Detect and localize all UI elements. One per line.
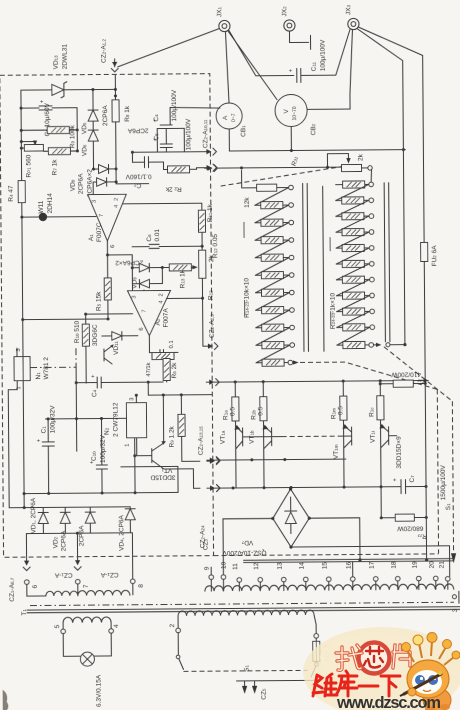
wire collector bus y488 xyxy=(215,487,401,488)
terminal JX1 xyxy=(216,6,230,31)
resistor R5 15k xyxy=(95,255,111,321)
resistor Rx 510 xyxy=(74,313,100,384)
capacitor C10 100u/32V xyxy=(89,417,107,495)
zener diode VD13 2DWL31 xyxy=(21,43,115,98)
svg-text:RP1 560: RP1 560 xyxy=(25,154,32,177)
svg-text:13: 13 xyxy=(277,562,284,570)
terminal 14 xyxy=(299,562,309,591)
svg-text:15: 15 xyxy=(322,562,329,570)
resistor R31 1k xyxy=(337,292,375,299)
diode VD9 xyxy=(131,255,162,289)
resistor R1b 0.5 xyxy=(250,382,267,488)
svg-text:N1: N1 xyxy=(35,372,42,380)
svg-text:C2: C2 xyxy=(134,182,142,189)
resistor R1m 0.5 xyxy=(330,381,347,487)
dashed boundary power board xyxy=(437,389,438,553)
wire ladder2 zigzag xyxy=(336,248,369,264)
wire V meter to bus xyxy=(290,127,292,151)
resistor R17 10k xyxy=(255,236,294,243)
svg-text:F007C: F007C xyxy=(96,222,103,242)
terminal 21 xyxy=(439,561,451,590)
connector arrow CZ2-A2,3 xyxy=(203,314,218,350)
mascot body xyxy=(400,633,460,710)
svg-text:17: 17 xyxy=(369,561,376,569)
svg-text:6.3V/0.15A: 6.3V/0.15A xyxy=(96,674,103,707)
wire JX3 to rail x425 xyxy=(358,26,424,243)
svg-text:3DD15D: 3DD15D xyxy=(150,473,175,480)
svg-text:8: 8 xyxy=(138,584,145,588)
resistor R6 2k xyxy=(146,352,178,383)
svg-text:2: 2 xyxy=(169,623,176,627)
connector arrows CZ2-A13,15 xyxy=(198,426,221,492)
terminal 11 xyxy=(232,563,242,591)
potentiometer RP1 560 xyxy=(20,140,44,178)
svg-text:R5 15k: R5 15k xyxy=(95,291,102,311)
transistor VT1 3DD15D driver xyxy=(133,437,175,494)
svg-text:0.01: 0.01 xyxy=(154,229,161,242)
wire driver collector to connector xyxy=(164,469,200,489)
svg-text:3: 3 xyxy=(16,348,22,351)
svg-text:3: 3 xyxy=(132,295,138,298)
wire y395 xyxy=(148,382,212,396)
svg-text:2CP6A: 2CP6A xyxy=(102,105,109,126)
svg-text:QSZ-10A/200V: QSZ-10A/200V xyxy=(222,549,267,556)
connector arrow CZ2-A11 xyxy=(202,119,216,171)
transistor VT2 3DG6C xyxy=(104,344,114,364)
svg-text:20: 20 xyxy=(429,561,436,569)
resistor R1c xyxy=(368,382,384,487)
svg-text:R12 0.05: R12 0.05 xyxy=(212,234,219,259)
mascot feet xyxy=(425,706,435,710)
transistor VT1b xyxy=(249,425,282,460)
wire terminal8 riser xyxy=(131,533,133,579)
svg-text:14: 14 xyxy=(299,562,306,570)
resistor R21 10k xyxy=(256,306,295,313)
wire meter bus y150 xyxy=(229,128,405,151)
svg-text:W11: W11 xyxy=(38,200,45,213)
wire sense line y168 xyxy=(218,166,342,169)
svg-text:0.5: 0.5 xyxy=(337,406,344,415)
char xia xyxy=(381,676,400,696)
connector CZ2-A arrow left of sense line xyxy=(205,165,218,172)
node rail405 bus xyxy=(402,148,405,151)
resistor R2 2k xyxy=(165,166,204,193)
wire A1 output node xyxy=(106,241,143,266)
T2 bottom winding xyxy=(178,610,314,616)
transformer core lines xyxy=(30,602,454,605)
dashed linkage to R31 xyxy=(221,167,342,186)
wire A-meter feed riser xyxy=(170,107,220,125)
terminal 12 xyxy=(253,562,263,591)
terminal JX3 xyxy=(345,4,359,29)
dashed S2 vertical xyxy=(444,401,456,563)
regulator N2 CW79L12 xyxy=(103,394,146,456)
svg-text:7: 7 xyxy=(99,214,105,217)
node rail425 at bar xyxy=(425,558,428,561)
wire left rail x23 upper xyxy=(20,90,23,180)
rail x23 lower xyxy=(23,320,24,508)
svg-text:18: 18 xyxy=(391,561,398,569)
wire y492 xyxy=(24,466,178,493)
wire C11 to JX3 xyxy=(300,30,350,76)
mascot pen xyxy=(404,674,441,694)
svg-text:6: 6 xyxy=(32,585,39,589)
svg-text:FU2 6A: FU2 6A xyxy=(431,245,438,267)
svg-text:7: 7 xyxy=(83,584,90,588)
capacitor C8 xyxy=(160,340,178,355)
wire tap16 riser xyxy=(352,562,354,577)
resistor R7 1k xyxy=(43,147,79,175)
wire ladder2 zigzag xyxy=(336,232,369,248)
rail x79 xyxy=(76,108,78,151)
capacitor C5 100u/100V xyxy=(153,118,192,152)
capacitor C6 0.01 xyxy=(132,228,204,248)
svg-text:3: 3 xyxy=(452,608,459,612)
capacitor C9 on y381 wire xyxy=(76,374,148,398)
terminal 16 xyxy=(346,561,356,590)
lamp winding 6.3V xyxy=(63,617,111,623)
svg-text:2DWL31: 2DWL31 xyxy=(62,44,69,70)
svg-text:21: 21 xyxy=(439,561,446,569)
wire base bus dashed xyxy=(253,436,272,438)
svg-text:3: 3 xyxy=(129,398,135,401)
wire A1 pin3 rail down to A2 xyxy=(131,255,133,291)
diode VD4 2CP6A xyxy=(118,507,135,551)
wire ladder1 zigzag xyxy=(255,240,289,258)
wire ladder2 zigzag to wiper row xyxy=(337,327,370,345)
svg-text:R4 47: R4 47 xyxy=(8,185,15,202)
watermark char pian (outline style) xyxy=(393,645,410,668)
svg-text:12: 12 xyxy=(253,562,260,570)
svg-text:R9 1.2k: R9 1.2k xyxy=(169,425,176,447)
T2 winding right end terminal 3 xyxy=(452,591,459,612)
svg-text:680/20W: 680/20W xyxy=(396,524,423,531)
svg-text:V: V xyxy=(283,109,290,114)
svg-text:C4: C4 xyxy=(91,389,98,397)
svg-text:6: 6 xyxy=(110,245,116,248)
svg-text:R11 1k: R11 1k xyxy=(207,203,214,222)
connector CZ1-A down arrows xyxy=(9,557,119,602)
column2 wiper row xyxy=(337,341,382,348)
resistor R16 10k xyxy=(255,219,294,226)
resistor R12 xyxy=(207,290,214,300)
resistor R24 1k xyxy=(336,181,374,188)
connector arrow into bus488 xyxy=(207,485,220,492)
resistor R13 1k xyxy=(162,264,198,289)
resistor R15 10k xyxy=(255,201,294,208)
svg-text:S1: S1 xyxy=(445,503,452,510)
svg-text:2k: 2k xyxy=(208,254,215,262)
resistor R8 1k on rail xyxy=(112,75,132,182)
rail x8 left xyxy=(8,390,18,508)
terminal 18 xyxy=(391,561,401,590)
char yi xyxy=(359,685,378,688)
wire JX3 to rail x405 xyxy=(357,28,403,150)
transistor VT1i xyxy=(370,424,403,469)
svg-text:A1: A1 xyxy=(88,234,95,241)
heavy bar bus xyxy=(244,559,454,561)
switch S1 left pole terminal 2 xyxy=(169,615,307,673)
capacitor C3 10u/60V xyxy=(19,99,77,136)
terminal 15 xyxy=(322,562,332,591)
potentiometer R31 2k xyxy=(291,153,373,172)
capacitor C4 100u/100V xyxy=(153,89,178,144)
svg-text:2CP6A: 2CP6A xyxy=(78,525,85,546)
svg-text:2DH14: 2DH14 xyxy=(47,193,54,214)
wire ladder2 zigzag xyxy=(336,264,369,280)
svg-text:100μ/100V: 100μ/100V xyxy=(320,39,327,71)
plug CZ5 output xyxy=(237,681,268,700)
wiper node to rails xyxy=(384,150,406,347)
dashed enclosure regulator board xyxy=(0,74,214,558)
svg-text:16: 16 xyxy=(346,561,353,569)
connector arrow CZ2-A10 xyxy=(203,148,216,155)
wire JX3 down to V meter xyxy=(306,30,353,110)
svg-text:2CP6A: 2CP6A xyxy=(127,127,148,134)
watermark glow xyxy=(303,627,460,710)
terminal 9 xyxy=(204,566,214,591)
wire ladder1 zigzag xyxy=(255,188,289,206)
resistor R33 1k xyxy=(337,324,375,331)
terminal 20 xyxy=(429,561,439,590)
rail x76 xyxy=(75,367,78,451)
wire ladder1 zigzag xyxy=(255,275,289,293)
op-amp A1 F007C xyxy=(88,194,127,248)
watermark weiku chars xyxy=(313,671,400,696)
wire driver emitter up xyxy=(162,395,164,443)
watermark char zhao (outline style) xyxy=(336,645,362,670)
svg-text:C4: C4 xyxy=(153,114,160,122)
svg-text:2: 2 xyxy=(114,198,120,201)
wire ladder1 zigzag xyxy=(255,258,289,276)
svg-text:100μ/100V: 100μ/100V xyxy=(171,89,178,121)
svg-text:47/1k: 47/1k xyxy=(146,362,152,376)
wire ladder1 zigzag xyxy=(256,328,290,346)
svg-text:3DG6C: 3DG6C xyxy=(92,324,99,346)
svg-text:A2: A2 xyxy=(155,318,162,325)
svg-text:12k: 12k xyxy=(244,197,251,208)
svg-text:R2 2k: R2 2k xyxy=(165,185,182,192)
transistor VT1a xyxy=(220,425,253,460)
resistor R30 1k xyxy=(336,276,374,283)
connector CZ2-A1 arrow into box xyxy=(101,38,119,72)
terminal 17 xyxy=(369,561,379,590)
bridge rectifier VD7 xyxy=(221,487,311,556)
diode VD8a horizontal at y168 xyxy=(87,164,118,197)
resistor R9b 1.2k xyxy=(168,395,200,462)
rail x23 mid xyxy=(21,217,24,319)
svg-text:VD1, 2CP6A: VD1, 2CP6A xyxy=(30,497,37,533)
ammeter CB1 xyxy=(216,103,247,137)
wire y417 xyxy=(45,417,126,420)
svg-text:R6 2k: R6 2k xyxy=(171,362,178,379)
T2 secondary winding xyxy=(205,584,454,591)
diode VD1 2CP6A xyxy=(30,497,48,534)
resistor R11 1k xyxy=(198,203,214,250)
terminal 19 xyxy=(412,561,422,590)
wire ladder2 zigzag xyxy=(336,184,369,200)
diode VD2 2CP6A xyxy=(52,507,70,551)
wire R31 tap to ladder xyxy=(370,169,373,182)
resistor R22 10k xyxy=(256,324,295,331)
svg-text:100μ/100V: 100μ/100V xyxy=(185,118,192,150)
wire JX1 to CZ2-A1 connector xyxy=(117,29,219,67)
terminal 13 xyxy=(277,562,287,591)
regulator N1 W7812 xyxy=(14,348,50,390)
fuse FU1 4A xyxy=(313,615,340,662)
wire JX2 stub plate xyxy=(289,31,310,50)
op-amp A2 F007A xyxy=(127,290,170,335)
svg-text:11: 11 xyxy=(232,563,239,570)
diode VD3 2CP6A xyxy=(78,507,95,546)
wire ladder1 zigzag xyxy=(255,205,289,223)
switch rails between ladders xyxy=(303,183,304,351)
svg-text:R7 1k: R7 1k xyxy=(51,159,58,176)
wire ladder2 zigzag xyxy=(337,311,370,327)
mascot face xyxy=(412,670,442,694)
svg-text:0.1/160V: 0.1/160V xyxy=(125,173,152,180)
lamp terminal 4 xyxy=(94,622,120,656)
mascot antennae xyxy=(407,641,454,665)
svg-text:5: 5 xyxy=(54,624,61,628)
char ku xyxy=(336,671,357,696)
terminal 7 xyxy=(75,579,89,595)
svg-text:www.dzsc.com: www.dzsc.com xyxy=(336,694,441,710)
wire ladder2 zigzag xyxy=(337,296,370,312)
svg-text:N2: N2 xyxy=(104,427,111,435)
wire A1 pins to R11 xyxy=(123,202,202,205)
svg-text:410/200W: 410/200W xyxy=(390,371,421,378)
svg-text:C1: C1 xyxy=(41,426,48,434)
connector arrow CZ2 into bus382 xyxy=(206,379,219,386)
svg-text:R13 1k: R13 1k xyxy=(179,269,186,288)
fuse FU2 6A xyxy=(421,242,440,383)
resistor R32 1k xyxy=(337,308,375,315)
wire ladder1 zigzag xyxy=(256,310,290,328)
resistor R9 100k xyxy=(20,124,79,148)
svg-text:A: A xyxy=(222,115,229,120)
transistor VT1m xyxy=(333,424,352,459)
dashed linkage wiper to S2 xyxy=(384,346,452,402)
diode VD8 feedback xyxy=(70,172,149,194)
resistor R20 10k xyxy=(255,289,294,296)
resistor R19 10k xyxy=(255,271,294,278)
svg-text:3: 3 xyxy=(92,200,98,203)
switch rails right of column2 xyxy=(384,183,385,342)
svg-text:0.5: 0.5 xyxy=(229,407,236,416)
svg-text:1500μ/100V: 1500μ/100V xyxy=(440,464,447,500)
resistor R top 12k xyxy=(240,166,293,208)
diode VD10 xyxy=(131,266,164,304)
potentiometer RP2 2k xyxy=(199,250,216,346)
resistor R23 680/20W xyxy=(379,383,428,559)
svg-text:R9 100k: R9 100k xyxy=(69,124,76,148)
switch S1 right pole xyxy=(239,661,318,681)
svg-text:W781 2: W781 2 xyxy=(43,357,50,380)
wire cap bracket xyxy=(157,128,184,152)
wire ladder1 zigzag xyxy=(255,223,289,241)
char wei xyxy=(313,674,337,696)
wire ladder1 zigzag xyxy=(256,293,290,311)
svg-text:6: 6 xyxy=(139,327,145,330)
svg-text:10~70: 10~70 xyxy=(292,106,298,120)
wire JX1 to V meter xyxy=(228,31,277,100)
wire bridge DC minus to terminal 21 xyxy=(291,546,450,578)
dashed linkage col1 wiper xyxy=(300,361,437,390)
connector arrow into bus460 xyxy=(207,457,220,464)
terminal 10 xyxy=(221,561,228,591)
wire ladder2 zigzag xyxy=(336,200,369,216)
svg-text:9: 9 xyxy=(204,566,211,570)
resistor R18 10k xyxy=(255,254,294,261)
terminal 6 xyxy=(24,580,45,596)
svg-text:2 CW79L12: 2 CW79L12 xyxy=(112,402,119,437)
svg-text:2: 2 xyxy=(159,293,165,296)
svg-text:0~7: 0~7 xyxy=(231,113,237,122)
svg-text:S1: S1 xyxy=(243,665,250,672)
svg-text:100μ/32V: 100μ/32V xyxy=(100,434,107,463)
svg-text:7: 7 xyxy=(142,309,148,312)
svg-text:3DD15D×9: 3DD15D×9 xyxy=(396,436,403,469)
capacitor C11 on wire xyxy=(289,39,327,83)
capacitor C7 1500u/100V xyxy=(393,464,447,500)
wire JX1 to A meter xyxy=(225,32,229,103)
thermistor W11 2DH14 xyxy=(22,192,96,221)
wire A2 output down xyxy=(149,336,160,353)
resistor R23 10k xyxy=(256,341,295,348)
lamp terminal 5 xyxy=(54,623,80,657)
wire ladder2 zigzag xyxy=(336,216,369,232)
voltmeter CB2 xyxy=(275,94,317,135)
svg-text:4: 4 xyxy=(113,624,120,628)
wire ladder1 zigzag to wiper row xyxy=(256,345,290,363)
svg-text:0.1: 0.1 xyxy=(169,340,175,348)
resistor R1a 0.5 xyxy=(222,382,239,488)
svg-text:F007A: F007A xyxy=(163,308,170,328)
wire JX1 to C11 node xyxy=(229,30,294,76)
svg-text:0.5: 0.5 xyxy=(257,406,264,415)
mascot arm xyxy=(408,688,416,696)
wire y506 bus diode tops xyxy=(9,506,130,509)
svg-text:2CP6A: 2CP6A xyxy=(78,173,85,194)
resistor R22 410/200W xyxy=(380,370,427,387)
resistor R26 1k xyxy=(336,213,374,220)
terminal 8 xyxy=(130,579,144,595)
column1 wiper row xyxy=(256,359,299,366)
terminal JX2 xyxy=(281,6,295,31)
svg-text:1: 1 xyxy=(125,444,131,447)
svg-text:R10 510: R10 510 xyxy=(74,320,81,343)
diode VD5 2CP6A xyxy=(81,88,109,134)
svg-text:C6: C6 xyxy=(146,234,153,242)
resistor R25 1k xyxy=(336,197,374,204)
svg-text:R8 1k: R8 1k xyxy=(124,105,131,122)
svg-text:C7: C7 xyxy=(409,475,416,483)
resistor R28 1k xyxy=(336,244,374,251)
resistor R4 47 xyxy=(8,181,26,218)
capacitor C1 100u/32V xyxy=(36,405,57,495)
wire A2 left input xyxy=(86,313,133,315)
wire emitter bus y460 xyxy=(215,459,346,460)
wire bridge AC right to bar xyxy=(309,518,360,560)
diode VD6 2CP6A xyxy=(81,121,98,169)
svg-text:10: 10 xyxy=(221,561,228,569)
resistor R29 1k xyxy=(336,260,374,267)
corner smudge xyxy=(3,690,9,710)
capacitor C2 0.1/160V xyxy=(125,152,168,189)
wire diode bottoms y532 xyxy=(26,532,132,535)
wire bus y382 xyxy=(214,380,428,382)
